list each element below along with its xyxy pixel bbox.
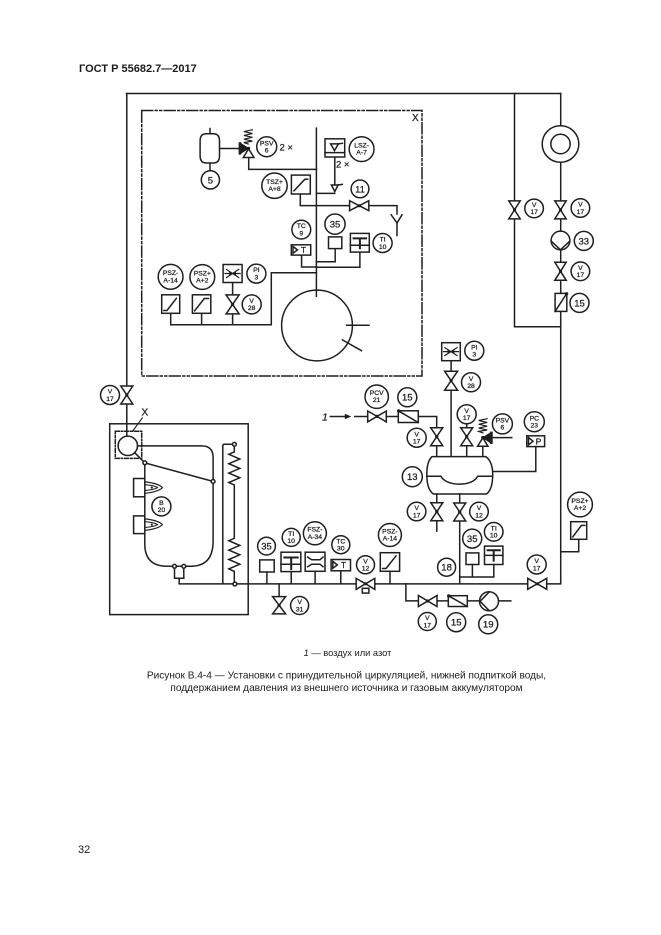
svg-text:поддержанием давления из внешн: поддержанием давления из внешнего источн… — [170, 683, 522, 694]
svg-text:10: 10 — [379, 244, 387, 251]
instrument circle PSZ- A-14 b — [378, 524, 401, 547]
svg-text:17: 17 — [577, 272, 585, 279]
svg-text:2 ×: 2 × — [280, 143, 293, 154]
svg-text:9: 9 — [299, 230, 303, 237]
valve V17 f — [461, 428, 473, 446]
svg-text:12: 12 — [362, 566, 370, 573]
instrument circle 15 a — [570, 293, 589, 312]
svg-text:ГОСТ Р 55682.7—2017: ГОСТ Р 55682.7—2017 — [79, 63, 197, 75]
svg-text:TC: TC — [297, 223, 306, 230]
valve V17 i — [418, 596, 437, 607]
wire riser downleg — [223, 444, 233, 584]
instrument circle PCV 21 — [365, 385, 388, 408]
valve PCV 21 — [368, 411, 387, 422]
wire PI3a to V28a — [232, 283, 234, 295]
valve V17 b — [509, 201, 520, 219]
instrument circle PSZ+ A+2 a — [190, 265, 215, 290]
pump 19 — [480, 592, 499, 611]
wire right riser — [560, 94, 562, 584]
wire PI3b to tank — [450, 361, 452, 457]
function square PI3 b orifice — [442, 343, 461, 361]
valve V17 g — [431, 503, 443, 521]
svg-text:31: 31 — [296, 606, 304, 613]
function square PSZ- b — [380, 553, 399, 572]
svg-text:PSV: PSV — [496, 418, 510, 425]
wire bottom main line — [179, 583, 561, 585]
label 2x left — [280, 143, 293, 154]
svg-text:23: 23 — [531, 423, 539, 430]
svg-text:17: 17 — [530, 209, 538, 216]
svg-text:P: P — [536, 437, 542, 447]
instrument circle 35 a — [325, 214, 345, 234]
svg-text:28: 28 — [248, 305, 256, 312]
flow meter double circle — [542, 126, 579, 163]
control valve V12 b — [356, 578, 375, 593]
strainer 15 a — [555, 292, 568, 311]
svg-text:18: 18 — [441, 563, 452, 574]
function rect TC9 — [291, 245, 310, 255]
node wall left — [143, 461, 147, 465]
svg-text:2 ×: 2 × — [336, 160, 349, 171]
function square TI10 a — [350, 233, 369, 252]
svg-text:10: 10 — [490, 533, 498, 540]
svg-text:33: 33 — [579, 236, 590, 247]
svg-text:15: 15 — [451, 618, 462, 629]
valve 11 — [350, 201, 369, 211]
svg-text:32: 32 — [78, 844, 90, 856]
instrument circle 33 — [574, 231, 593, 250]
wire air inlet arrow — [330, 414, 367, 420]
svg-text:5: 5 — [208, 175, 213, 186]
svg-text:21: 21 — [373, 397, 381, 404]
wire vessel5 stubs — [210, 129, 238, 171]
function rect PC23 — [527, 436, 545, 447]
pump 33 — [551, 231, 570, 250]
svg-text:6: 6 — [265, 148, 269, 155]
strainer 15 c — [447, 594, 467, 606]
svg-text:28: 28 — [467, 383, 475, 390]
svg-text:V: V — [578, 202, 583, 209]
svg-text:TSZ+: TSZ+ — [266, 179, 283, 186]
function square TI10 b — [485, 546, 503, 564]
svg-text:10: 10 — [287, 538, 295, 545]
wire manifold main vertical — [315, 128, 317, 291]
instrument circle 15 b — [398, 388, 417, 407]
valve V17 h — [528, 578, 547, 589]
svg-text:PSZ+: PSZ+ — [571, 498, 588, 505]
instrument circle B 20 — [152, 497, 171, 516]
instrument circle 5 — [201, 171, 219, 189]
svg-text:V: V — [425, 615, 430, 622]
svg-text:PSV: PSV — [260, 140, 274, 147]
svg-text:V: V — [469, 376, 474, 383]
valve V17 c — [555, 201, 566, 219]
svg-text:V: V — [414, 431, 419, 438]
instrument circle V 17 i — [418, 613, 436, 631]
instrument circle V 28 a — [242, 295, 261, 314]
wire LSZ level connector — [316, 157, 334, 193]
svg-text:PSZ-: PSZ- — [382, 528, 397, 535]
svg-text:A-14: A-14 — [383, 536, 398, 543]
instrument circle V 31 — [291, 597, 309, 615]
instrument circle PSZ+ A+2 b — [568, 492, 593, 517]
gas accumulator tank 13 — [427, 457, 493, 494]
svg-text:35: 35 — [467, 534, 478, 545]
safety valve PSV 6 left — [240, 130, 254, 158]
wire TSZ connector — [300, 194, 316, 206]
heating coil zigzag — [229, 446, 240, 582]
instrument circle LSZ- A-7 — [349, 137, 374, 162]
wire TC9 connector — [302, 255, 317, 267]
instrument circle 19 — [479, 615, 498, 634]
level mark nabla — [331, 184, 342, 191]
function square 35 a — [329, 237, 342, 249]
svg-text:30: 30 — [337, 546, 345, 553]
svg-text:TI: TI — [288, 531, 294, 538]
instrument circle V 28 b — [462, 373, 481, 392]
function square TI10 c — [281, 552, 301, 571]
svg-text:A-7: A-7 — [356, 150, 367, 157]
valve V12 a — [454, 503, 466, 521]
svg-text:35: 35 — [330, 220, 341, 231]
svg-text:PC: PC — [530, 415, 540, 422]
instrument circle 11 — [351, 180, 369, 198]
svg-text:20: 20 — [158, 507, 166, 514]
function square PI3 a orifice — [223, 265, 242, 283]
svg-text:V: V — [363, 558, 368, 565]
instrument circle PSV 6 left — [257, 137, 277, 157]
svg-text:A+2: A+2 — [196, 278, 209, 285]
svg-text:A-34: A-34 — [308, 534, 323, 541]
label 1 air inlet — [322, 411, 328, 423]
instrument circle V 17 h — [527, 555, 546, 574]
wire V31 stub — [278, 584, 280, 597]
svg-text:A+2: A+2 — [574, 505, 587, 512]
furnace drain header — [175, 568, 184, 584]
svg-text:15: 15 — [574, 298, 585, 309]
svg-text:T: T — [341, 561, 346, 570]
instrument circle TI 10 b — [484, 523, 503, 542]
wire tank bottom nozzles — [437, 494, 460, 584]
instrument circle V 12 b — [357, 556, 375, 574]
svg-text:12: 12 — [475, 512, 483, 519]
strainer 15 b — [397, 409, 418, 422]
svg-text:X: X — [412, 113, 419, 124]
svg-text:PI: PI — [253, 267, 260, 274]
instrument circle V 17 a — [101, 386, 120, 405]
svg-text:A-14: A-14 — [163, 277, 178, 284]
boiler drum circle — [118, 436, 137, 455]
svg-text:B: B — [159, 500, 164, 507]
svg-text:LSZ-: LSZ- — [354, 142, 369, 149]
function square 35 b — [466, 553, 479, 565]
svg-text:17: 17 — [424, 622, 432, 629]
instrument circle V 17 f — [457, 405, 476, 424]
wire makeup pump line — [406, 584, 511, 601]
safety valve PSV 6 right — [478, 419, 512, 457]
instrument circle PI 3 b — [465, 341, 484, 360]
svg-text:19: 19 — [483, 620, 494, 631]
svg-text:PSZ+: PSZ+ — [194, 270, 211, 277]
svg-text:1: 1 — [322, 411, 328, 423]
svg-text:T: T — [301, 246, 306, 255]
svg-text:V: V — [532, 202, 537, 209]
node drain left — [173, 564, 177, 568]
node drain right — [182, 564, 186, 568]
vessel 5 — [200, 134, 219, 163]
instrument circle TC 30 — [332, 536, 350, 554]
instrument circle V 17 e — [407, 428, 426, 447]
svg-text:3: 3 — [472, 352, 476, 359]
svg-text:V: V — [464, 408, 469, 415]
svg-text:X: X — [142, 408, 149, 419]
svg-text:17: 17 — [577, 209, 585, 216]
wire strainer to tank — [418, 417, 436, 457]
burner 2 — [134, 516, 163, 534]
valve V17 d — [555, 262, 566, 280]
wire bottom instrument drops — [267, 571, 390, 584]
wire downcomer diagonal — [147, 463, 212, 481]
instrument circle TSZ+ A+8 — [262, 173, 287, 198]
steam drum big circle — [282, 290, 369, 361]
instrument circle TC 9 — [292, 220, 311, 239]
instrument circle TI 10 a — [373, 234, 392, 253]
label 2x LSZ — [336, 160, 349, 171]
instrument circle 35 c — [258, 537, 276, 555]
wire V17f vent stub — [466, 424, 468, 456]
svg-text:V: V — [297, 599, 302, 606]
wire 35b TI10b connectors — [460, 565, 494, 577]
vent to atmosphere Y — [391, 215, 402, 236]
function square PSZ+ b — [571, 522, 587, 540]
function square TSZ ramp — [291, 175, 310, 194]
wire PCV to strainer — [386, 416, 398, 418]
instrument circle FSZ- A-34 — [303, 522, 326, 545]
svg-text:6: 6 — [501, 425, 505, 432]
valve V28 b — [445, 371, 458, 390]
svg-text:13: 13 — [407, 472, 418, 483]
wire TI10a connector — [316, 252, 360, 267]
svg-text:PCV: PCV — [370, 390, 384, 397]
instrument circle 13 — [402, 467, 422, 487]
wire left feed pipe — [126, 94, 128, 437]
instrument circle TI 10 c — [282, 528, 300, 546]
wire 35a connector — [316, 249, 335, 262]
instrument circle 15 c — [447, 613, 466, 632]
instrument circle PSV 6 right — [492, 414, 512, 434]
instrument circle V 12 a — [470, 502, 489, 521]
wire PSZ+b connector — [561, 539, 579, 551]
svg-text:V: V — [414, 505, 419, 512]
function square FSZ venturi — [305, 552, 325, 571]
svg-text:17: 17 — [533, 565, 541, 572]
instrument circle V 17 g — [407, 502, 426, 521]
furnace water-wall loop — [138, 446, 214, 566]
instrument circle PC 23 — [524, 412, 544, 432]
wire PC23 to tank — [493, 447, 535, 472]
wire drum to wall — [135, 453, 144, 462]
node coil bottom — [233, 582, 237, 586]
function square PSZ+ a — [192, 295, 210, 314]
function square 35 c — [260, 560, 275, 572]
svg-text:PI: PI — [471, 344, 478, 351]
node wall right — [211, 480, 215, 484]
instrument circle PSZ- A-14 a — [158, 264, 183, 289]
instrument circle 35 b — [463, 529, 482, 548]
svg-text:17: 17 — [413, 512, 421, 519]
burner 1 — [134, 479, 163, 497]
function square PSZ- a — [162, 295, 180, 314]
svg-text:V: V — [578, 265, 583, 272]
wire PSV5 drain — [249, 158, 317, 170]
wire steam header top — [127, 93, 561, 95]
svg-text:TI: TI — [380, 237, 386, 244]
node label X at boiler — [133, 408, 149, 431]
valve V17 e — [431, 428, 443, 446]
svg-text:17: 17 — [413, 439, 421, 446]
svg-text:TI: TI — [491, 525, 497, 532]
svg-text:35: 35 — [261, 542, 272, 553]
svg-text:17: 17 — [106, 396, 114, 403]
node label X top-right — [412, 113, 419, 124]
svg-text:PSZ-: PSZ- — [163, 270, 178, 277]
svg-text:V: V — [477, 505, 482, 512]
node riser top — [233, 442, 237, 446]
wire vent line valve 11 — [316, 206, 397, 214]
svg-text:TC: TC — [336, 538, 345, 545]
wire left branch pipe — [515, 94, 561, 327]
instrument circle PI 3 a — [247, 264, 266, 283]
instrument circle V 17 c — [571, 199, 590, 218]
svg-text:FSZ-: FSZ- — [307, 527, 322, 534]
instrument circle 18 — [438, 558, 456, 576]
svg-text:1 — воздух или азот: 1 — воздух или азот — [304, 648, 392, 658]
function rect TC30 — [331, 560, 350, 571]
svg-text:V: V — [108, 389, 113, 396]
svg-text:15: 15 — [402, 393, 413, 404]
svg-text:A+8: A+8 — [268, 186, 281, 193]
boiler B20 casing box — [110, 424, 249, 615]
valve V 31 — [273, 597, 286, 614]
svg-text:11: 11 — [355, 184, 365, 195]
svg-text:Рисунок В.4-4 — Установки с пр: Рисунок В.4-4 — Установки с принудительн… — [147, 671, 546, 682]
boundary X dash-dot box — [142, 111, 422, 377]
svg-text:17: 17 — [463, 415, 471, 422]
drum dashed box — [115, 431, 141, 458]
svg-text:3: 3 — [255, 274, 259, 281]
svg-text:V: V — [534, 558, 539, 565]
instrument circle V 17 d — [571, 262, 590, 281]
valve V17 a — [121, 386, 133, 404]
instrument circle V 17 b — [525, 199, 544, 218]
function square LSZ level — [325, 139, 345, 157]
wire pressure tap group — [171, 273, 317, 325]
valve V28 a — [226, 295, 239, 314]
svg-text:V: V — [249, 298, 254, 305]
